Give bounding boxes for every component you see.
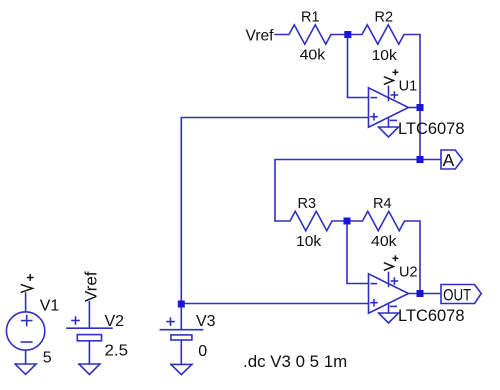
svg-text:A: A xyxy=(443,150,455,170)
svg-text:40k: 40k xyxy=(300,48,326,64)
svg-text:.dc V3 0 5 1m: .dc V3 0 5 1m xyxy=(243,352,347,371)
svg-text:10k: 10k xyxy=(372,48,398,64)
svg-text:LTC6078: LTC6078 xyxy=(398,120,465,138)
svg-text:40k: 40k xyxy=(371,234,397,250)
svg-text:LTC6078: LTC6078 xyxy=(398,307,465,325)
svg-text:OUT: OUT xyxy=(443,285,471,304)
svg-text:0: 0 xyxy=(198,343,207,360)
svg-text:5: 5 xyxy=(43,349,52,366)
svg-text:10k: 10k xyxy=(296,234,322,250)
svg-text:U1: U1 xyxy=(399,78,418,94)
svg-text:R4: R4 xyxy=(373,196,392,212)
svg-text:2.5: 2.5 xyxy=(105,343,129,360)
svg-text:V1: V1 xyxy=(40,297,60,314)
svg-text:R1: R1 xyxy=(301,9,320,25)
svg-text:R2: R2 xyxy=(375,9,394,25)
svg-text:U2: U2 xyxy=(399,264,418,280)
svg-text:Vref: Vref xyxy=(82,271,101,302)
svg-text:Vref: Vref xyxy=(246,28,275,45)
svg-text:R3: R3 xyxy=(298,196,317,212)
svg-text:V2: V2 xyxy=(105,313,125,330)
svg-text:V3: V3 xyxy=(196,313,216,330)
